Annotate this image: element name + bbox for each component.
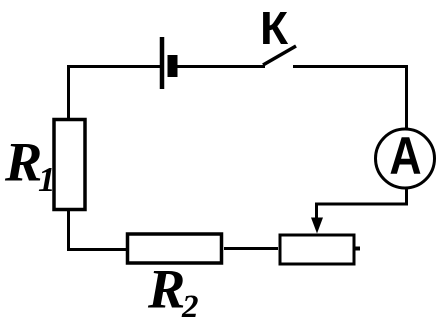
wire: top-left corner, from R1 top up and right to battery [69, 67, 161, 120]
svg-text:2: 2 [181, 289, 199, 325]
rheostat R3: body [280, 235, 354, 264]
rheostat right terminal stub [354, 247, 360, 251]
wire: R2 left, bottom-left corner, up to R1 bottom [69, 209, 127, 250]
wire: switch to top-right corner, down to ammeter [293, 67, 407, 129]
ammeter PA1: circle [376, 129, 435, 188]
battery GB1: short thick plate (negative) [168, 55, 178, 77]
svg-text:R: R [147, 259, 185, 321]
switch K: blade (open) [263, 46, 296, 65]
battery GB1: long plate (positive) [160, 37, 165, 89]
svg-text:R: R [4, 132, 42, 194]
resistor R2: body [128, 234, 222, 263]
svg-text:1: 1 [38, 160, 56, 199]
svg-text:К: К [260, 2, 289, 54]
wire: ammeter bottom, down and left to rheostat wiper [317, 188, 407, 220]
rheostat wiper arrowhead [311, 218, 323, 234]
wire: rheostat left terminal to R2 [224, 247, 278, 250]
wire: battery to switch contact [177, 65, 265, 68]
svg-text:A: A [389, 128, 421, 186]
resistor R1: body [54, 120, 85, 210]
